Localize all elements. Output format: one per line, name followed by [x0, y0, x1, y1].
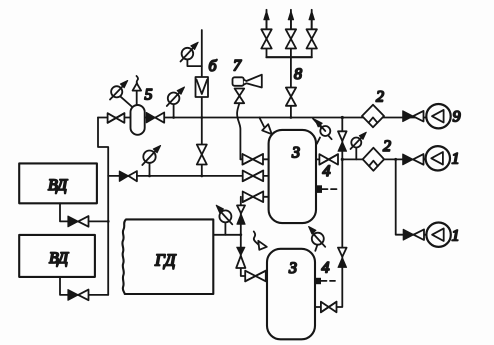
svg-text:1: 1 — [452, 228, 460, 245]
check valve pair on riser top (hollow down / filled up) — [338, 131, 347, 151]
valve B (tank mid left) — [243, 171, 269, 182]
upper tank 3 — [269, 130, 316, 223]
svg-text:3: 3 — [288, 260, 297, 277]
wire instrument line with component 6 — [201, 30, 203, 176]
dashed signal line upper — [322, 188, 339, 190]
svg-text:7: 7 — [233, 57, 242, 74]
pump/compressor 1 (lower) — [426, 223, 450, 247]
svg-text:5: 5 — [145, 87, 153, 104]
filter diamond 2 lower — [363, 148, 384, 171]
wire drop to third pump — [396, 159, 427, 234]
gauge G3 stub — [173, 104, 175, 118]
valve VD lower drain — [68, 290, 89, 301]
wire VD lower drain — [60, 277, 108, 295]
wire VD upper drain — [60, 203, 108, 221]
valve left of capsule — [108, 113, 125, 123]
capsule separator 5 — [131, 105, 145, 135]
svg-text:ВД: ВД — [49, 250, 69, 267]
svg-text:1: 1 — [452, 151, 460, 168]
valve on second header — [119, 171, 136, 181]
gauge G8 stub — [355, 148, 357, 160]
gauge G4 — [142, 146, 160, 166]
vent arrow mid — [288, 10, 293, 30]
vent valve left — [261, 29, 271, 48]
component 6 (filter) — [196, 77, 209, 97]
nozzle into upper tank — [259, 118, 271, 135]
valve on instrument line below header — [197, 145, 207, 165]
wire right riser — [316, 118, 342, 308]
svg-text:2: 2 — [383, 138, 391, 155]
gauge G4 stub — [149, 163, 151, 176]
wire vent drop to main header — [290, 57, 292, 117]
pump feed valve row 1 — [403, 111, 424, 122]
gauge G5 on header over tank corner — [313, 119, 332, 144]
wire lower pump row header — [342, 158, 427, 160]
box VD upper — [19, 163, 97, 203]
valve into lower tank left — [245, 271, 267, 282]
junction dots on main header — [172, 116, 175, 119]
nozzle into lower tank — [254, 232, 267, 250]
vent valve right — [307, 29, 317, 48]
svg-text:8: 8 — [294, 66, 302, 83]
wire vent branch left — [266, 20, 268, 57]
gauge G7 — [309, 227, 326, 247]
svg-text:9: 9 — [453, 109, 461, 126]
wire left drop from main header to VD column — [98, 118, 108, 295]
wire GD outlet line — [213, 234, 241, 236]
svg-text:4: 4 — [322, 260, 330, 277]
wire down to valve A corner — [240, 158, 243, 160]
svg-text:2: 2 — [376, 89, 384, 106]
svg-text:ГД: ГД — [154, 251, 177, 270]
vent arrow left — [264, 10, 269, 30]
valve 4 upper — [316, 154, 338, 164]
gauge G7 stub to tank corner — [315, 245, 317, 251]
gauge G6 — [216, 205, 232, 224]
component 7 horn — [233, 75, 262, 88]
svg-text:ВД: ВД — [48, 177, 68, 194]
svg-text:3: 3 — [291, 145, 300, 162]
gauge G2 diagonal stub — [121, 97, 133, 107]
pump feed valve row 3 — [403, 229, 424, 240]
box GD (with torn left edge) — [122, 219, 213, 294]
svg-text:б: б — [209, 58, 218, 75]
pump/compressor 9 — [426, 104, 450, 128]
pump/compressor 1 (upper) — [426, 146, 450, 170]
svg-text:4: 4 — [323, 163, 331, 180]
gauge G8 — [351, 132, 367, 149]
wire valve C down through check valves to lower tank valve — [241, 197, 245, 276]
valve C (tank lower left) — [243, 192, 269, 203]
valve VD upper drain — [68, 216, 89, 227]
valve 7 (vertical) — [235, 89, 245, 104]
relief valve on capsule — [133, 76, 142, 105]
black square actuator lower tank — [315, 278, 321, 284]
valve right of capsule (half filled) — [146, 113, 164, 123]
wire second header — [108, 175, 243, 177]
box VD lower — [19, 235, 95, 277]
valve A (tank top left) — [243, 154, 269, 165]
wire main header — [98, 117, 427, 119]
gauge G2 — [110, 81, 128, 100]
lower tank 3 — [267, 249, 315, 339]
wire from valve 7 across header down to tank valve A — [237, 103, 240, 159]
black square actuator upper tank — [316, 185, 322, 193]
check valve pair upper (hollow down / filled up) — [237, 205, 245, 224]
wire vent branch right — [311, 20, 313, 57]
pump feed valve row 2 — [403, 154, 424, 165]
junction dot riser — [341, 158, 344, 161]
junction dot GD line — [239, 233, 242, 236]
wire vent branch mid — [290, 20, 292, 57]
gauge G3 — [167, 87, 185, 106]
vent valve mid — [286, 29, 296, 48]
valve 4 lower (lower tank right) — [321, 302, 337, 313]
gauge G1 stub — [187, 59, 201, 66]
dashed signal line lower — [321, 280, 335, 282]
gauge G6 stub — [224, 223, 226, 235]
vent arrow right — [309, 10, 314, 30]
wire vent collector bar — [267, 56, 312, 58]
gauge G1 — [181, 42, 199, 61]
valve 8 — [286, 88, 296, 106]
check valve pair lower (filled down / hollow up) — [236, 247, 245, 268]
check valve pair on riser lower (hollow down / filled up) — [338, 248, 347, 268]
filter diamond 2 upper — [362, 105, 384, 128]
